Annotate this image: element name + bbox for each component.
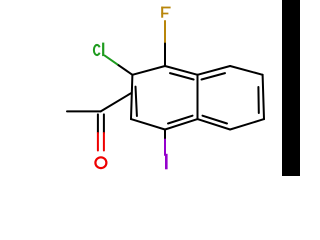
ring 1: edge LR-UR (fused edge) bbox=[197, 75, 199, 119]
ring 1: edge UR-T (double) bbox=[165, 66, 198, 75]
ring 2: edge UR-T2 (double) bbox=[198, 66, 231, 75]
wire bbox=[119, 65, 133, 75]
atom label I bbox=[165, 154, 168, 170]
bond I to ring bottom (purple half near I) bbox=[164, 130, 166, 140]
ring 2: edge B2-LR (double) bbox=[198, 119, 231, 129]
ring 1: edge UL-LL (left, double) bbox=[131, 75, 132, 119]
atom label Cl bbox=[94, 43, 103, 57]
right transparent padding strip (renders black) bbox=[282, 0, 300, 176]
C=O double bond (red halves near O) bbox=[97, 114, 99, 133]
ring 2: edge R2b-B2 bbox=[230, 119, 264, 129]
ring 1: edge B-LR (double) bbox=[165, 119, 198, 129]
bond Cl to ring UL (green half near Cl) bbox=[105, 56, 119, 66]
ring 1: edge LL-B bbox=[131, 119, 165, 129]
wire bbox=[164, 44, 166, 67]
atom label O bbox=[95, 157, 106, 168]
ring 2: edge T2-R2a bbox=[230, 66, 263, 75]
acetyl: ring to carbonyl C bbox=[101, 93, 131, 111]
atom label F bbox=[161, 7, 170, 18]
ring 2: edge R2a-R2b (right, double) bbox=[263, 75, 264, 119]
bond F to ring top (gold half near F) bbox=[164, 21, 166, 44]
ring 1: edge T-UL bbox=[132, 66, 165, 75]
methyl bond bbox=[67, 110, 101, 112]
